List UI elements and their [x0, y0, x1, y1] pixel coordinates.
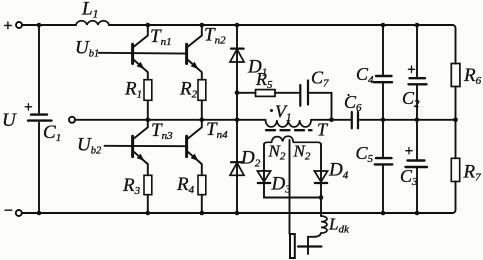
node top rail / Tn1 collector [146, 23, 151, 28]
svg-text:Ub1: Ub1 [75, 38, 99, 60]
svg-text:C5: C5 [356, 143, 374, 165]
svg-text:R3: R3 [122, 175, 141, 197]
node top rail / C4 [381, 23, 386, 28]
wire R7 top [455, 120, 457, 159]
wire top rail left segment [22, 24, 76, 26]
diode D2 [230, 162, 244, 175]
node mid rail / R6 R7 [453, 117, 458, 122]
wire R4 to bottom rail [201, 195, 203, 213]
node top rail / D1 [235, 23, 240, 28]
svg-text:D2: D2 [240, 148, 261, 170]
resistor R1 [144, 80, 152, 101]
node mid rail / C5 [381, 118, 386, 123]
wire R1 to mid rail [147, 100, 149, 119]
svg-text:D4: D4 [328, 160, 349, 182]
svg-text:Ldk: Ldk [328, 215, 350, 236]
svg-text:R6: R6 [463, 65, 482, 87]
svg-text:Ub2: Ub2 [77, 135, 102, 157]
wire bottom rail [22, 212, 453, 214]
terminal - (negative input) [5, 210, 22, 216]
node mid rail / C3 [415, 118, 420, 123]
wire snubber to R5 [237, 92, 256, 94]
wire C1 column upper [38, 25, 40, 113]
wire C4 top [382, 25, 384, 76]
wire R6 to mid rail [455, 87, 457, 120]
capacitor C4 [374, 76, 393, 82]
node rectifier common [319, 195, 324, 200]
wire C3 bottom [416, 167, 418, 213]
transistor Tn3 [133, 120, 148, 176]
output capacitor plate left [290, 234, 295, 258]
terminal + (positive input) [5, 22, 23, 29]
wire R7 to bottom rail [453, 182, 456, 214]
svg-text:Tn4: Tn4 [206, 119, 228, 141]
winding polarity dot [270, 109, 273, 112]
wire C5 top [382, 120, 384, 158]
diode D4 [314, 171, 327, 183]
wire D4 to common [320, 183, 322, 198]
wire C7 to primary right [308, 93, 332, 120]
node bottom rail / R3 [146, 211, 151, 216]
node bottom rail / C3 [415, 211, 420, 216]
transformer primary winding N1 [266, 120, 312, 127]
wire C3 top [416, 120, 418, 161]
svg-text:R2: R2 [179, 79, 198, 101]
transformer secondary winding [264, 136, 321, 145]
wire R5 to C7 [275, 92, 300, 94]
resistor R6 [451, 64, 460, 87]
transistor Tn2 [187, 25, 202, 80]
svg-text:C3: C3 [400, 166, 418, 188]
wire secondary centre tap [289, 140, 291, 234]
svg-text:C6: C6 [344, 92, 362, 114]
diode D3 [257, 171, 270, 183]
transistor Tn1 [133, 25, 148, 80]
node bottom rail / D2 [235, 211, 240, 216]
svg-text:R4: R4 [176, 174, 195, 196]
wire common to Ldk [320, 198, 322, 217]
svg-text:R7: R7 [463, 162, 482, 184]
node bottom rail / R4 [200, 211, 205, 216]
svg-text:L1: L1 [81, 0, 98, 21]
capacitor C6 [352, 112, 358, 128]
svg-text:C7: C7 [311, 68, 329, 90]
wire C2 bottom [416, 84, 418, 120]
node top rail / C2 [415, 23, 420, 28]
wire secondary right end [320, 144, 322, 183]
resistor R2 [198, 80, 206, 101]
node bottom rail / C1 [37, 211, 42, 216]
node top rail / C1 [37, 23, 42, 28]
diode D1 [230, 49, 244, 62]
wire C2 top [416, 25, 418, 78]
resistor R5 [256, 90, 276, 97]
svg-text:Tn3: Tn3 [151, 120, 173, 142]
svg-text:V1: V1 [275, 102, 292, 124]
svg-text:D3: D3 [271, 174, 292, 196]
wire R2 to mid rail [201, 100, 203, 119]
terminal mid input [69, 117, 75, 123]
wire R3 to bottom rail [147, 195, 149, 213]
wire C1 column lower [38, 123, 40, 213]
node mid rail / D1 D2 column [235, 118, 240, 123]
svg-text:U: U [2, 110, 17, 131]
resistor R7 [451, 158, 459, 181]
wire C5 bottom [382, 164, 384, 213]
svg-text:R5: R5 [255, 69, 273, 91]
svg-text:C4: C4 [356, 64, 374, 86]
node mid rail / Tn4 collector [200, 118, 205, 123]
node top rail / Tn2 collector [200, 23, 205, 28]
capacitor C3 [406, 148, 428, 168]
wire C4 bottom [382, 82, 384, 120]
svg-text:Tn2: Tn2 [204, 25, 226, 47]
transformer core [266, 129, 312, 131]
svg-text:Tn1: Tn1 [150, 26, 172, 48]
svg-text:T: T [317, 120, 329, 140]
output capacitor plate right lead [298, 245, 321, 247]
wire D1 column [236, 25, 238, 120]
wire mid rail C6 right [358, 119, 456, 121]
capacitor C2 [408, 66, 426, 84]
node primary / C7 junction [329, 118, 334, 123]
inductor Ldk [321, 216, 327, 233]
wire mid rail C6 left [332, 119, 352, 121]
wire base drive Tn3 Tn4 [105, 145, 187, 147]
capacitor C7 [300, 81, 308, 106]
wire D3 to common [264, 183, 321, 198]
svg-text:N2: N2 [268, 142, 286, 163]
resistor R3 [144, 175, 152, 194]
resistor R4 [198, 175, 206, 194]
wire top rail right segment [109, 25, 456, 64]
wire base drive Tn1 Tn2 [99, 52, 187, 55]
inductor L1 [76, 21, 109, 25]
wire secondary left end [263, 144, 265, 183]
node bottom rail / C5 [381, 211, 386, 216]
wire Ldk hook to output cap [308, 233, 321, 254]
svg-text:R1: R1 [124, 79, 142, 101]
node snubber tap [235, 91, 240, 96]
wire D2 column [236, 120, 238, 213]
wire primary to junction [311, 119, 331, 121]
transistor Tn4 [187, 120, 202, 176]
node mid rail / Tn3 collector [146, 118, 151, 123]
svg-text:C1: C1 [43, 122, 61, 144]
stray mark above C6 [347, 94, 349, 96]
wire mid rail left [75, 119, 266, 121]
svg-text:N2: N2 [293, 142, 311, 163]
capacitor C1 [25, 104, 51, 121]
capacitor C5 [375, 158, 393, 164]
